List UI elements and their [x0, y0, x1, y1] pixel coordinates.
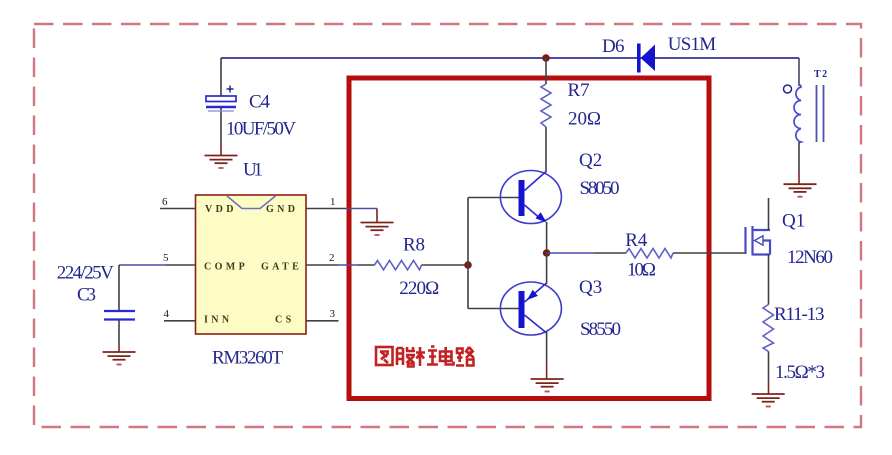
IC U1 box RM3260T	[196, 195, 307, 334]
svg-text:6: 6	[162, 196, 168, 208]
svg-text:CS: CS	[275, 315, 295, 326]
transistor Q3 S8550	[500, 282, 561, 335]
pin 5 wire	[119, 264, 165, 266]
glyph 路	[456, 347, 474, 366]
IC notch	[227, 196, 276, 209]
T2 winding	[794, 85, 801, 143]
svg-text:10UF/50V: 10UF/50V	[226, 119, 296, 140]
svg-text:VDD: VDD	[205, 204, 237, 215]
pin 3 wire	[306, 320, 339, 322]
svg-text:C4: C4	[249, 92, 271, 113]
diode D6	[637, 44, 655, 73]
transformer T2	[798, 58, 800, 86]
wire Q3 base	[468, 308, 519, 310]
capacitor C4	[206, 86, 236, 112]
T2 core lines	[817, 85, 824, 142]
svg-text:US1M: US1M	[668, 34, 717, 55]
node junction output	[543, 249, 551, 257]
svg-text:Q1: Q1	[782, 211, 805, 232]
mosfet Q1 12N60	[746, 226, 771, 256]
svg-text:T2: T2	[814, 69, 829, 80]
ground (R11)	[752, 394, 785, 407]
resistor R4	[547, 252, 594, 254]
svg-text:1.5Ω*3: 1.5Ω*3	[775, 362, 825, 383]
wire top bus	[221, 57, 799, 59]
svg-text:RM3260T: RM3260T	[212, 348, 283, 369]
svg-text:S8050: S8050	[580, 178, 620, 199]
wire Q2 base	[468, 197, 519, 199]
ground (Q3)	[531, 379, 564, 392]
totem-pole red box	[349, 78, 709, 399]
svg-text:Q3: Q3	[579, 277, 602, 298]
pin 4 wire	[164, 320, 196, 322]
wire Q2 emitter	[546, 222, 548, 253]
svg-text:1: 1	[330, 196, 336, 208]
wire C3	[118, 265, 120, 310]
svg-text:S8550: S8550	[580, 319, 621, 340]
node junction R8	[464, 261, 472, 269]
label 图腾柱电路 (hand-drawn glyphs)	[376, 347, 474, 367]
svg-text:INN: INN	[204, 315, 233, 326]
T2 phase dot	[784, 85, 792, 93]
svg-text:R4: R4	[625, 230, 648, 251]
glyph 腾	[397, 347, 415, 367]
svg-text:4: 4	[164, 308, 170, 320]
capacitor C3	[104, 311, 135, 320]
pin 1 wire	[306, 208, 346, 210]
svg-text:COMP: COMP	[204, 262, 248, 273]
ground (pin1)	[361, 223, 394, 236]
pin 6 wire	[160, 208, 196, 210]
node junction top bus	[542, 54, 550, 62]
svg-text:220Ω: 220Ω	[399, 278, 439, 299]
svg-text:5: 5	[163, 252, 169, 264]
ground (T2)	[784, 184, 817, 197]
glyph 电	[440, 347, 454, 365]
transistor Q2 S8050	[500, 171, 561, 224]
wire Q3 collector	[546, 332, 548, 364]
svg-text:20Ω: 20Ω	[568, 108, 601, 129]
wire base bus	[467, 198, 469, 309]
glyph 柱	[416, 347, 438, 367]
svg-text:12N60: 12N60	[787, 247, 833, 268]
ground (C3)	[103, 352, 136, 365]
wire R7 top	[545, 58, 547, 84]
svg-text:R11-13: R11-13	[774, 304, 825, 325]
svg-text:2: 2	[329, 252, 335, 264]
svg-text:224/25V: 224/25V	[57, 263, 114, 284]
svg-text:Q2: Q2	[579, 150, 602, 171]
svg-text:R8: R8	[403, 235, 425, 256]
svg-text:U1: U1	[243, 160, 263, 181]
svg-text:3: 3	[330, 308, 336, 320]
wire Q3 emitter	[546, 253, 548, 284]
resistor R11-13	[763, 305, 774, 352]
resistor R8	[375, 261, 422, 270]
ground (C4)	[205, 156, 238, 169]
svg-text:GND: GND	[266, 204, 298, 215]
wire Q1 drain	[768, 198, 770, 230]
pin 2 wire	[306, 264, 339, 266]
wire C4 top	[220, 58, 222, 96]
svg-text:C3: C3	[77, 285, 96, 306]
wire C4 bottom	[220, 108, 222, 144]
svg-text:GATE: GATE	[261, 262, 302, 273]
svg-text:D6: D6	[602, 36, 625, 57]
svg-text:10Ω: 10Ω	[627, 260, 656, 281]
glyph 图	[376, 347, 393, 365]
wire Q1 source	[768, 255, 770, 305]
svg-text:R7: R7	[568, 80, 590, 101]
resistor R7	[541, 84, 551, 127]
